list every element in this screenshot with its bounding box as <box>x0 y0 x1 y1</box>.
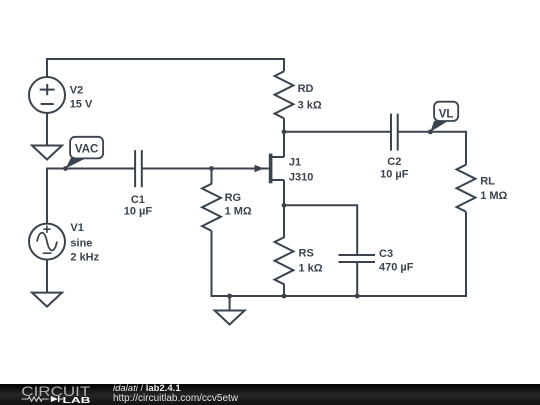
wire C1 to JFET gate <box>142 168 269 170</box>
label C1 value <box>124 194 153 218</box>
svg-text:3 kΩ: 3 kΩ <box>298 100 322 112</box>
footer bar <box>0 384 540 405</box>
node dot RS bottom <box>282 294 287 299</box>
wire drain node to C2 <box>284 131 391 133</box>
svg-text:RG: RG <box>225 192 242 204</box>
node dot drain <box>282 129 287 134</box>
svg-text:RS: RS <box>299 248 314 260</box>
svg-text:VL: VL <box>439 109 454 121</box>
svg-text:C1: C1 <box>131 194 145 206</box>
svg-text:C2: C2 <box>387 156 401 168</box>
resistor RS <box>275 205 294 296</box>
flag VAC <box>66 137 104 169</box>
node dot source <box>282 203 287 208</box>
wire VAC net: V1 top, horizontal to C1 <box>47 169 135 224</box>
svg-text:V2: V2 <box>70 85 83 97</box>
wire RL bottom to bottom rail <box>212 212 467 296</box>
wire source node to C3 top <box>284 205 357 255</box>
label flag text VAC <box>75 144 98 156</box>
svg-text:V1: V1 <box>70 222 83 234</box>
voltage source V2 <box>29 77 65 113</box>
node dot C3 bottom <box>355 294 360 299</box>
node dot RG top <box>209 166 214 171</box>
wire C2 to RL top <box>398 132 466 165</box>
node dot VL attach <box>428 130 433 135</box>
logo CircuitLab <box>0 384 110 405</box>
wire V1 bottom to ground <box>46 260 48 293</box>
label V2 value <box>70 85 93 111</box>
wire ground stem bottom <box>229 296 231 311</box>
svg-text:1 MΩ: 1 MΩ <box>225 206 252 218</box>
capacitor C2 <box>391 114 398 151</box>
node dot VAC attach <box>63 166 68 171</box>
label RL value <box>480 176 507 202</box>
wire RD bottom to drain node <box>283 118 285 132</box>
svg-text:J310: J310 <box>289 171 313 183</box>
ground (V1) <box>32 293 62 307</box>
capacitor C1 <box>135 150 142 187</box>
svg-text:sine: sine <box>70 238 92 250</box>
ground (bottom rail) <box>215 311 245 325</box>
node dot ground bottom <box>227 294 232 299</box>
label RD value <box>298 83 322 112</box>
wire V2 bottom to ground <box>46 113 48 146</box>
svg-text:10 µF: 10 µF <box>124 206 153 218</box>
svg-text:1 MΩ: 1 MΩ <box>480 190 507 202</box>
label C3 value <box>379 248 414 273</box>
svg-text:J1: J1 <box>289 157 301 169</box>
svg-text:470 µF: 470 µF <box>379 261 414 273</box>
svg-text:RL: RL <box>480 176 495 188</box>
svg-text:1 kΩ: 1 kΩ <box>299 263 323 275</box>
resistor RD <box>275 71 294 118</box>
label flag text VL <box>439 109 454 121</box>
label RS value <box>299 248 323 275</box>
ground (V2) <box>32 146 62 160</box>
svg-text:LAB: LAB <box>63 395 91 405</box>
resistor RL <box>457 165 476 212</box>
transistor Q J1 JFET <box>255 132 285 206</box>
label J1 value <box>289 157 313 184</box>
label V1 value <box>70 222 99 264</box>
flag VL <box>430 102 458 132</box>
svg-text:VAC: VAC <box>75 144 98 156</box>
svg-text:RD: RD <box>298 83 314 95</box>
capacitor C3 <box>339 255 376 262</box>
label RG value <box>225 192 252 217</box>
wire top rail V2 to RD <box>47 59 284 77</box>
svg-text:2 kHz: 2 kHz <box>70 251 99 263</box>
footer text <box>113 384 238 404</box>
wire C3 bottom lead <box>356 262 358 296</box>
resistor RG <box>202 169 221 231</box>
svg-text:C3: C3 <box>379 248 393 260</box>
svg-text:10 µF: 10 µF <box>380 168 409 180</box>
voltage source V1 <box>29 224 65 260</box>
svg-text:15 V: 15 V <box>70 99 93 111</box>
label C2 value <box>380 156 409 180</box>
